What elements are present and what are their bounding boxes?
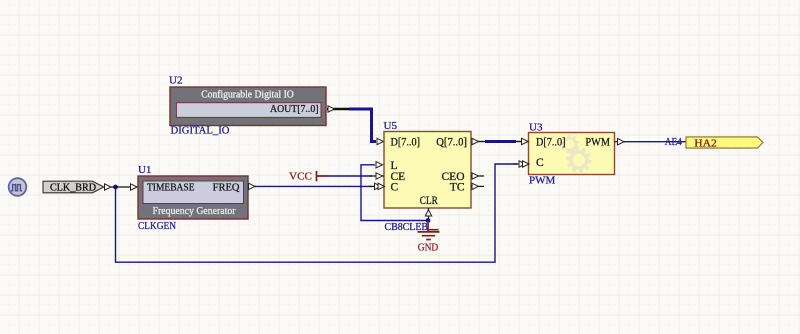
svg-text:U2: U2 [169,75,182,87]
svg-text:AOUT[7..0]: AOUT[7..0] [270,103,319,115]
pin arrows U5 C (clock, double) [369,183,385,189]
svg-text:PWM: PWM [529,174,556,186]
pin arrow at U5 D input [377,138,384,144]
svg-text:VCC: VCC [289,171,312,183]
svg-text:CLKGEN: CLKGEN [138,220,176,232]
svg-text:U1: U1 [138,164,151,176]
pin line into U1 TIMEBASE with arrow [111,184,138,190]
port HA2 [686,137,763,150]
pin arrow U5 L [376,162,383,168]
gear watermark [560,135,592,173]
svg-text:Frequency Generator: Frequency Generator [153,206,237,217]
wire FREQ to U5 C [255,185,372,187]
designator U2 [169,75,182,87]
svg-text:C: C [391,181,399,193]
designator U5 [384,120,398,132]
svg-text:U5: U5 [384,120,398,132]
junction CLK_BRD node [113,185,118,190]
pin stub U5 TC [471,183,484,189]
svg-text:PWM: PWM [585,137,610,149]
svg-text:U3: U3 [529,121,543,133]
port CLK_BRD [43,181,104,193]
clock source icon [9,178,27,196]
svg-text:TC: TC [450,181,465,193]
svg-text:D[7..0]: D[7..0] [391,137,421,149]
wire PWM to HA2 [624,141,687,143]
sheet symbol U1 (CLKGEN Frequency Generator) [138,176,248,219]
component U5 (counter block) [384,132,471,209]
svg-text:Q[7..0]: Q[7..0] [436,137,467,149]
sheet name DIGITAL_IO [171,125,230,137]
svg-text:C: C [536,157,544,169]
designator U3 [529,121,543,133]
pin arrow at U1 FREQ output [248,183,256,189]
power port VCC [289,171,328,183]
pin arrow U3 PWM output [615,139,626,145]
pin arrow U5 Q output [472,138,479,144]
svg-text:CLR: CLR [420,195,438,207]
sheet name CLKGEN [138,220,176,232]
pin arrows U3 C (clock, double) [514,161,530,167]
pin arrow U3 D input [522,138,529,144]
pin stub U5 CEO [471,173,484,179]
wire CB8CLEB net (U5 L down to CLR/GND) [361,165,428,221]
bus Q[7..0] from U5 to U3 D [471,141,528,143]
net label AE4 [665,136,682,148]
pin CLR (bottom, with up arrow) [425,208,431,221]
power port GND [418,221,440,254]
svg-text:DIGITAL_IO: DIGITAL_IO [171,125,230,137]
svg-text:D[7..0]: D[7..0] [536,137,566,149]
pin arrow at CLK_BRD port [105,184,112,190]
pin arrow at U2 AOUT output [328,106,335,112]
svg-text:Configurable Digital IO: Configurable Digital IO [201,90,294,101]
svg-text:GND: GND [418,242,439,254]
pin arrow U5 CE [369,173,384,179]
svg-text:AE4: AE4 [665,136,682,148]
svg-text:FREQ: FREQ [213,182,240,193]
svg-text:HA2: HA2 [694,137,717,149]
wire VCC to U5 CE [327,175,372,177]
svg-text:TIMEBASE: TIMEBASE [147,182,195,193]
svg-text:CLK_BRD: CLK_BRD [50,183,96,194]
component U3 (PWM block) [529,133,615,175]
sheet symbol U2 (Configurable Digital IO) [170,87,326,126]
bus AOUT[7..0] from U2 to U5 D [327,109,376,142]
junction CB8CLEB node at CLR [426,218,431,223]
sheet name PWM (below U3) [529,174,556,186]
wire CLK_BRD net (junction to bottom run up to U3 C pin) [116,164,518,262]
net label CB8CLEB [385,222,429,233]
designator U1 [138,164,151,176]
